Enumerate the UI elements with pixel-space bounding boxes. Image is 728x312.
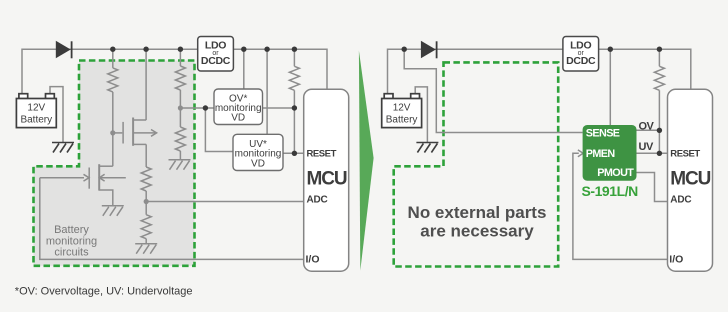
svg-text:I/O: I/O <box>669 254 683 266</box>
svg-text:ADC: ADC <box>307 194 328 205</box>
svg-text:PMOUT: PMOUT <box>597 167 634 179</box>
svg-text:circuits: circuits <box>54 247 89 259</box>
svg-text:DCDC: DCDC <box>201 55 231 67</box>
svg-text:RESET: RESET <box>670 149 700 160</box>
svg-text:monitoring: monitoring <box>46 235 97 247</box>
svg-text:ADC: ADC <box>670 194 691 205</box>
svg-text:No external parts: No external parts <box>408 203 547 222</box>
svg-text:*OV: Overvoltage, UV: Undervol: *OV: Overvoltage, UV: Undervoltage <box>15 286 193 298</box>
svg-text:PMEN: PMEN <box>586 148 616 160</box>
svg-text:RESET: RESET <box>307 149 337 160</box>
svg-text:OV: OV <box>639 121 655 133</box>
svg-text:VD: VD <box>251 158 265 169</box>
svg-text:MCU: MCU <box>670 168 710 189</box>
svg-text:SENSE: SENSE <box>586 128 620 140</box>
svg-text:I/O: I/O <box>306 254 320 266</box>
svg-text:UV: UV <box>639 141 654 153</box>
svg-text:VD: VD <box>231 113 245 124</box>
svg-text:MCU: MCU <box>307 168 347 189</box>
svg-text:12V: 12V <box>27 102 45 113</box>
svg-text:Battery: Battery <box>54 224 89 236</box>
svg-text:12V: 12V <box>393 102 411 113</box>
svg-text:DCDC: DCDC <box>566 55 596 67</box>
svg-text:S-191L/N: S-191L/N <box>582 183 639 199</box>
svg-text:Battery: Battery <box>386 114 418 125</box>
svg-text:Battery: Battery <box>20 114 52 125</box>
svg-text:are necessary: are necessary <box>420 221 534 240</box>
